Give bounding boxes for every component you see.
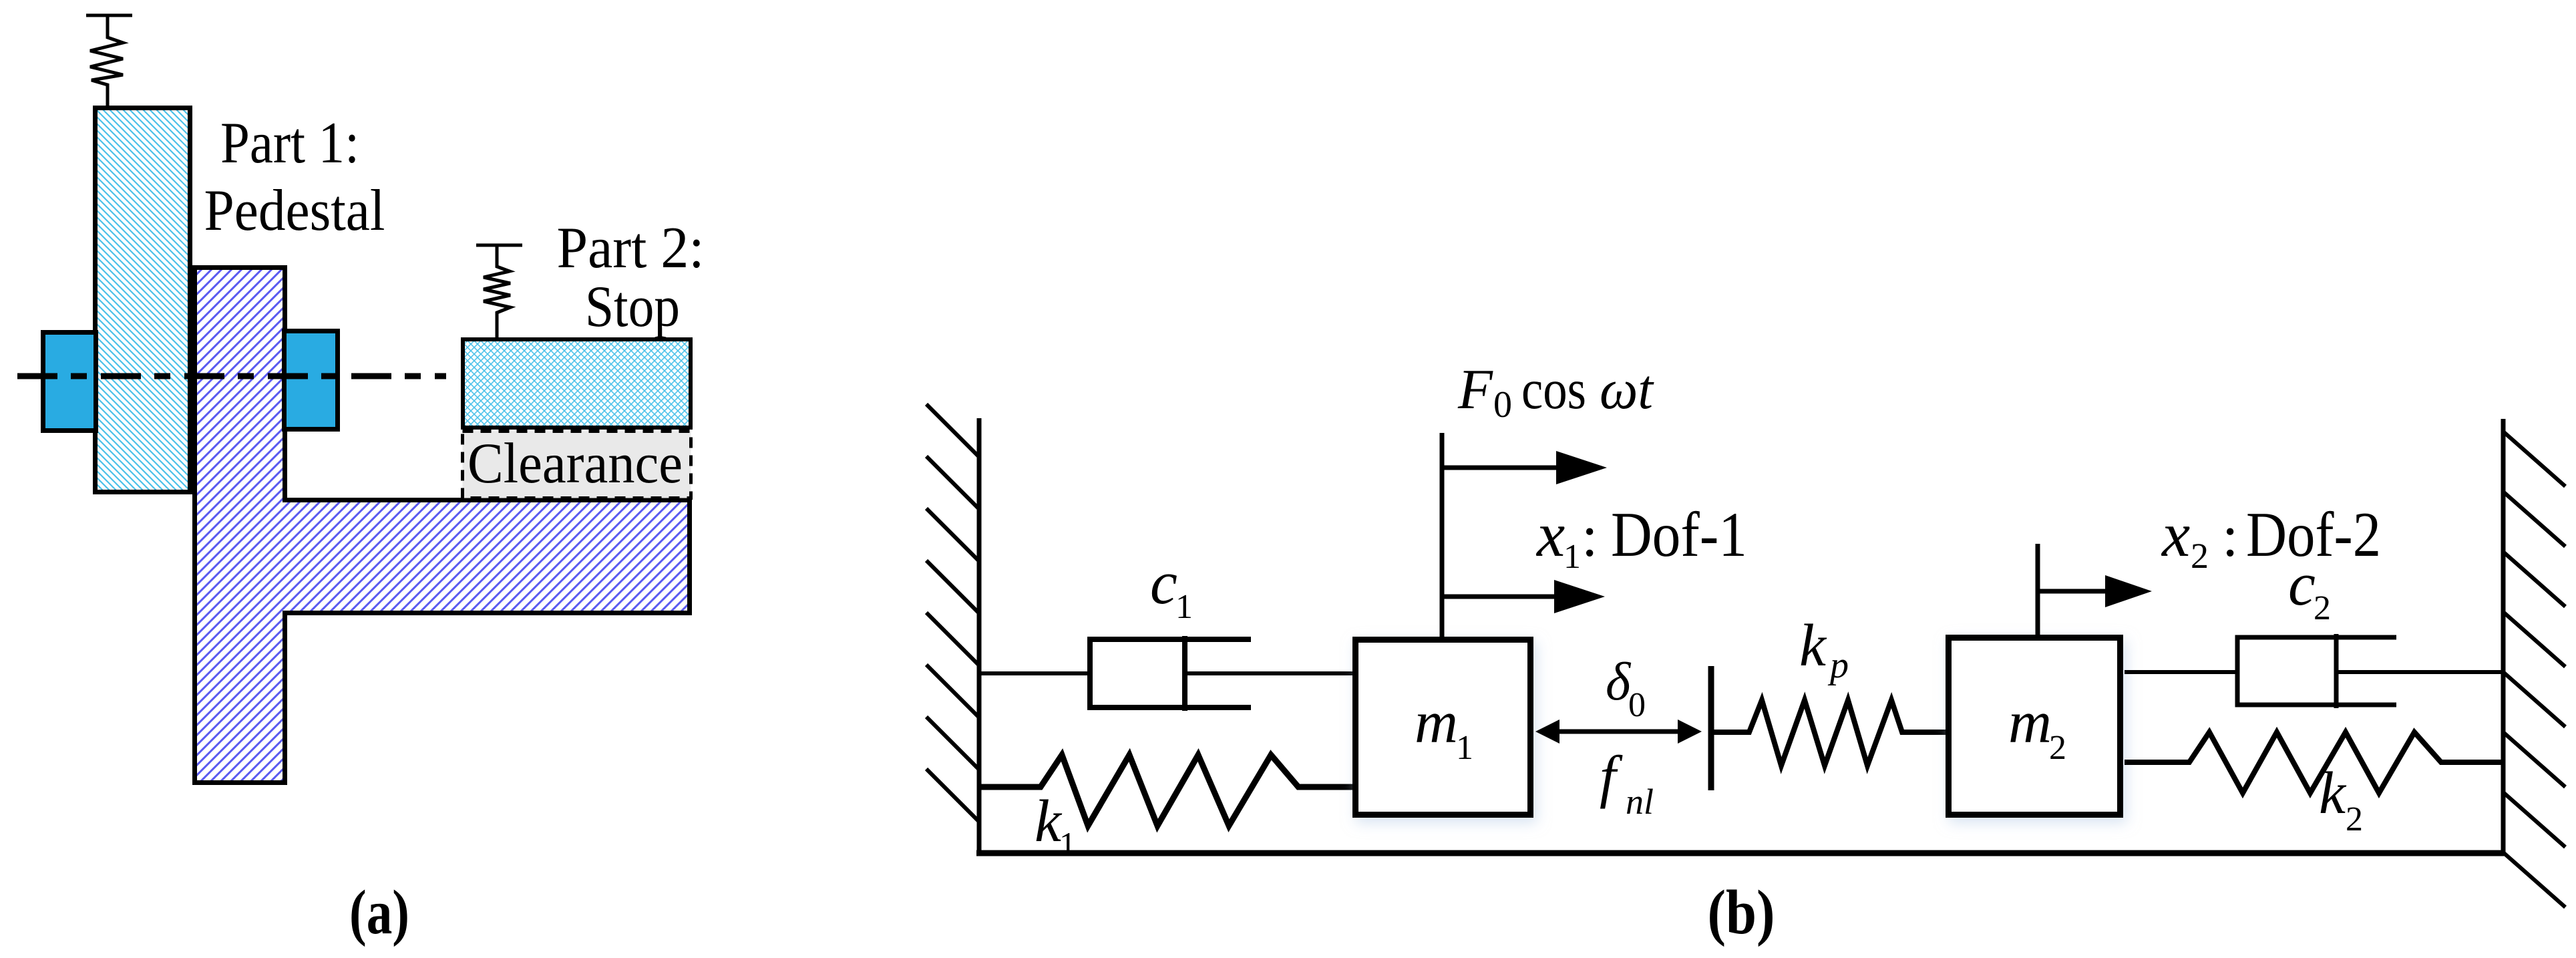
right wall hatching — [2503, 432, 2565, 907]
rotor T-shape (purple hatched) — [195, 268, 690, 783]
dof-2 arrow — [2038, 575, 2152, 607]
svg-text:2: 2 — [2191, 536, 2209, 576]
mass m2 — [1949, 638, 2121, 815]
svg-text:cos: cos — [1521, 358, 1586, 421]
svg-text:Pedestal: Pedestal — [204, 178, 385, 243]
center dashed axis line — [17, 373, 446, 379]
svg-text:1: 1 — [1456, 729, 1473, 767]
svg-text:2: 2 — [2346, 800, 2363, 838]
svg-text:Part 2:: Part 2: — [557, 216, 705, 281]
left journal block (cyan) — [43, 333, 96, 431]
svg-text:(b): (b) — [1708, 878, 1775, 947]
svg-text::: : — [1582, 504, 1598, 569]
clearance double arrow — [1535, 720, 1702, 744]
svg-text:c: c — [2288, 550, 2316, 618]
svg-text:(a): (a) — [349, 878, 409, 947]
svg-text:c: c — [1150, 548, 1177, 617]
svg-text:1: 1 — [1059, 825, 1076, 862]
svg-text:2: 2 — [2049, 729, 2066, 767]
spring on stop top — [476, 245, 522, 339]
svg-text:Stop: Stop — [585, 275, 680, 339]
stop block (cyan cross-hatched) — [463, 339, 691, 428]
spring kp — [1711, 700, 1947, 766]
svg-text:2: 2 — [2314, 589, 2331, 627]
svg-text:k: k — [2319, 760, 2347, 826]
svg-text:1: 1 — [1563, 538, 1581, 576]
right wall line — [2501, 419, 2506, 854]
force arrow F0 — [1443, 451, 1607, 484]
damper c2 — [2125, 634, 2503, 708]
pedestal body Part 1 (hatched) — [96, 108, 190, 492]
svg-text:k: k — [1799, 613, 1827, 679]
clearance box — [463, 431, 691, 498]
dof-1 arrow — [1443, 580, 1605, 613]
spring on pedestal top — [86, 15, 132, 108]
svg-text:k: k — [1035, 788, 1063, 854]
svg-text:0: 0 — [1493, 384, 1512, 426]
svg-text:f: f — [1600, 745, 1623, 810]
left wall hatching — [926, 404, 979, 822]
force line on m1 — [1440, 433, 1445, 637]
svg-text::: : — [2222, 504, 2238, 569]
label Part 1: Pedestal — [204, 111, 385, 243]
svg-text:m: m — [1415, 689, 1458, 756]
label Part 2: Stop — [557, 216, 705, 339]
spring k2 — [2125, 732, 2503, 793]
dof-2 line on m2 — [2036, 544, 2040, 635]
ground line — [976, 850, 2505, 856]
svg-text:x: x — [1535, 499, 1565, 570]
stop bar — [1708, 666, 1714, 790]
svg-text:p: p — [1827, 645, 1849, 686]
svg-text:Part 1:: Part 1: — [220, 111, 359, 176]
svg-text:nl: nl — [1626, 782, 1654, 822]
svg-text:Dof-1: Dof-1 — [1611, 499, 1747, 570]
svg-text:x: x — [2161, 499, 2190, 570]
right journal block (cyan) — [285, 331, 338, 430]
damper c1 — [981, 636, 1354, 711]
spring k1 — [981, 755, 1354, 826]
svg-text:m: m — [2008, 689, 2052, 756]
svg-text:1: 1 — [1175, 588, 1193, 626]
left wall line — [977, 418, 982, 855]
svg-text:0: 0 — [1628, 686, 1646, 724]
svg-text:Clearance: Clearance — [468, 431, 683, 495]
svg-text:ωt: ωt — [1600, 358, 1654, 421]
mass m1 — [1356, 640, 1531, 815]
svg-text:F: F — [1457, 358, 1493, 421]
